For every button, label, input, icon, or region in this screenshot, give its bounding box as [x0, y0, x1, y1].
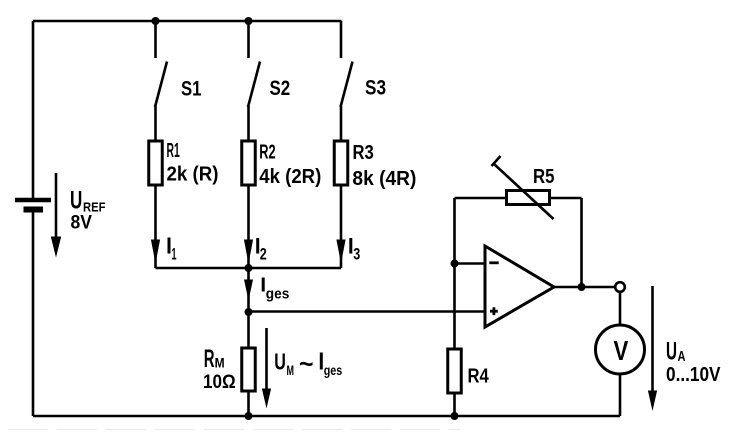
node R_M top junction	[245, 308, 253, 316]
terminal output open circle	[615, 282, 625, 292]
op-amp U1	[485, 246, 554, 327]
node bus junction	[245, 264, 253, 272]
node minus input junction	[451, 260, 459, 268]
switch S3	[341, 62, 353, 108]
wire I_ges segment with arrow	[244, 268, 253, 312]
battery U_REF plate short	[24, 207, 44, 213]
svg-text:R: R	[204, 345, 215, 373]
wire S1 to R1	[154, 106, 157, 141]
svg-text:2: 2	[260, 245, 267, 264]
label I_ges	[262, 278, 265, 292]
wire summing bus	[156, 267, 342, 270]
node S2 top junction	[245, 17, 253, 25]
wire R1 down with current arrow I1	[151, 185, 160, 268]
wire minus input	[455, 262, 486, 265]
voltage arrow U_A	[648, 286, 657, 411]
resistor R5	[507, 191, 550, 205]
svg-text:M: M	[215, 355, 225, 371]
svg-text:M: M	[287, 362, 295, 378]
wire S3 to R3	[340, 106, 343, 141]
svg-text:4k (2R): 4k (2R)	[259, 166, 321, 188]
wire feedback top left	[455, 197, 507, 200]
wire feedback top right	[550, 197, 582, 200]
svg-text:ges: ges	[324, 363, 343, 378]
wire R_M upper	[247, 312, 250, 348]
switch S1	[155, 62, 167, 108]
voltage arrow U_REF	[51, 173, 61, 258]
wire S1 branch upper	[154, 21, 157, 58]
label I2	[256, 238, 259, 254]
svg-text:2k (R): 2k (R)	[167, 164, 219, 186]
svg-text:U: U	[70, 187, 82, 215]
voltage arrow U_M	[262, 328, 271, 409]
svg-text:S1: S1	[181, 78, 202, 101]
voltmeter V	[596, 325, 645, 374]
wire feedback right vertical	[580, 198, 583, 287]
resistor R3	[334, 141, 348, 185]
wire R3 down with current arrow I3	[336, 185, 345, 268]
switch S2	[248, 62, 260, 108]
svg-text:10Ω: 10Ω	[203, 371, 236, 393]
wire voltmeter to bottom rail	[619, 374, 622, 416]
trimmer arrow R5	[492, 156, 554, 219]
svg-text:8k (4R): 8k (4R)	[352, 168, 416, 190]
wire left rail upper	[32, 21, 35, 198]
wire output	[554, 286, 615, 289]
label I_ges in U_M expression	[320, 353, 323, 370]
svg-text:U: U	[274, 349, 286, 375]
svg-text:S2: S2	[270, 77, 291, 100]
node S1 top junction	[152, 17, 160, 25]
wire to op-amp plus input	[249, 310, 486, 313]
label I1	[168, 238, 171, 254]
wire R4 lower	[453, 393, 456, 416]
wire R_M lower	[247, 391, 250, 416]
resistor R2	[242, 141, 256, 185]
scan artifact line	[8, 429, 460, 431]
wire feedback left vertical	[453, 198, 456, 349]
wire bottom rail	[33, 415, 620, 418]
node output junction	[578, 283, 586, 291]
svg-text:R4: R4	[468, 366, 490, 388]
svg-text:V: V	[614, 335, 629, 366]
wire S2 to R2	[247, 106, 250, 141]
svg-text:1: 1	[172, 245, 177, 264]
wire R2 down with current arrow I2	[244, 185, 253, 268]
wire S2 branch upper	[247, 21, 250, 58]
svg-text:R3: R3	[353, 142, 374, 164]
node R4 bottom junction	[451, 412, 459, 420]
svg-text:U: U	[666, 338, 677, 366]
svg-text:8V: 8V	[71, 212, 93, 234]
svg-text:S3: S3	[365, 77, 386, 100]
wire S3 branch upper	[340, 21, 343, 58]
svg-text:~: ~	[299, 349, 314, 379]
wire output to voltmeter	[619, 292, 622, 325]
node R_M bottom junction	[245, 412, 253, 420]
svg-text:R1: R1	[167, 140, 180, 162]
resistor R1	[149, 141, 163, 185]
resistor R4	[448, 349, 462, 393]
svg-text:3: 3	[353, 245, 360, 264]
svg-text:ges: ges	[266, 286, 290, 303]
battery U_REF plate long	[15, 198, 51, 203]
wire left rail lower	[32, 211, 35, 416]
svg-text:R2: R2	[259, 142, 275, 164]
svg-text:R5: R5	[533, 166, 555, 188]
resistor R_M	[242, 348, 256, 391]
label I3	[349, 238, 352, 254]
svg-text:0...10V: 0...10V	[666, 363, 721, 386]
wire top rail	[33, 20, 342, 23]
